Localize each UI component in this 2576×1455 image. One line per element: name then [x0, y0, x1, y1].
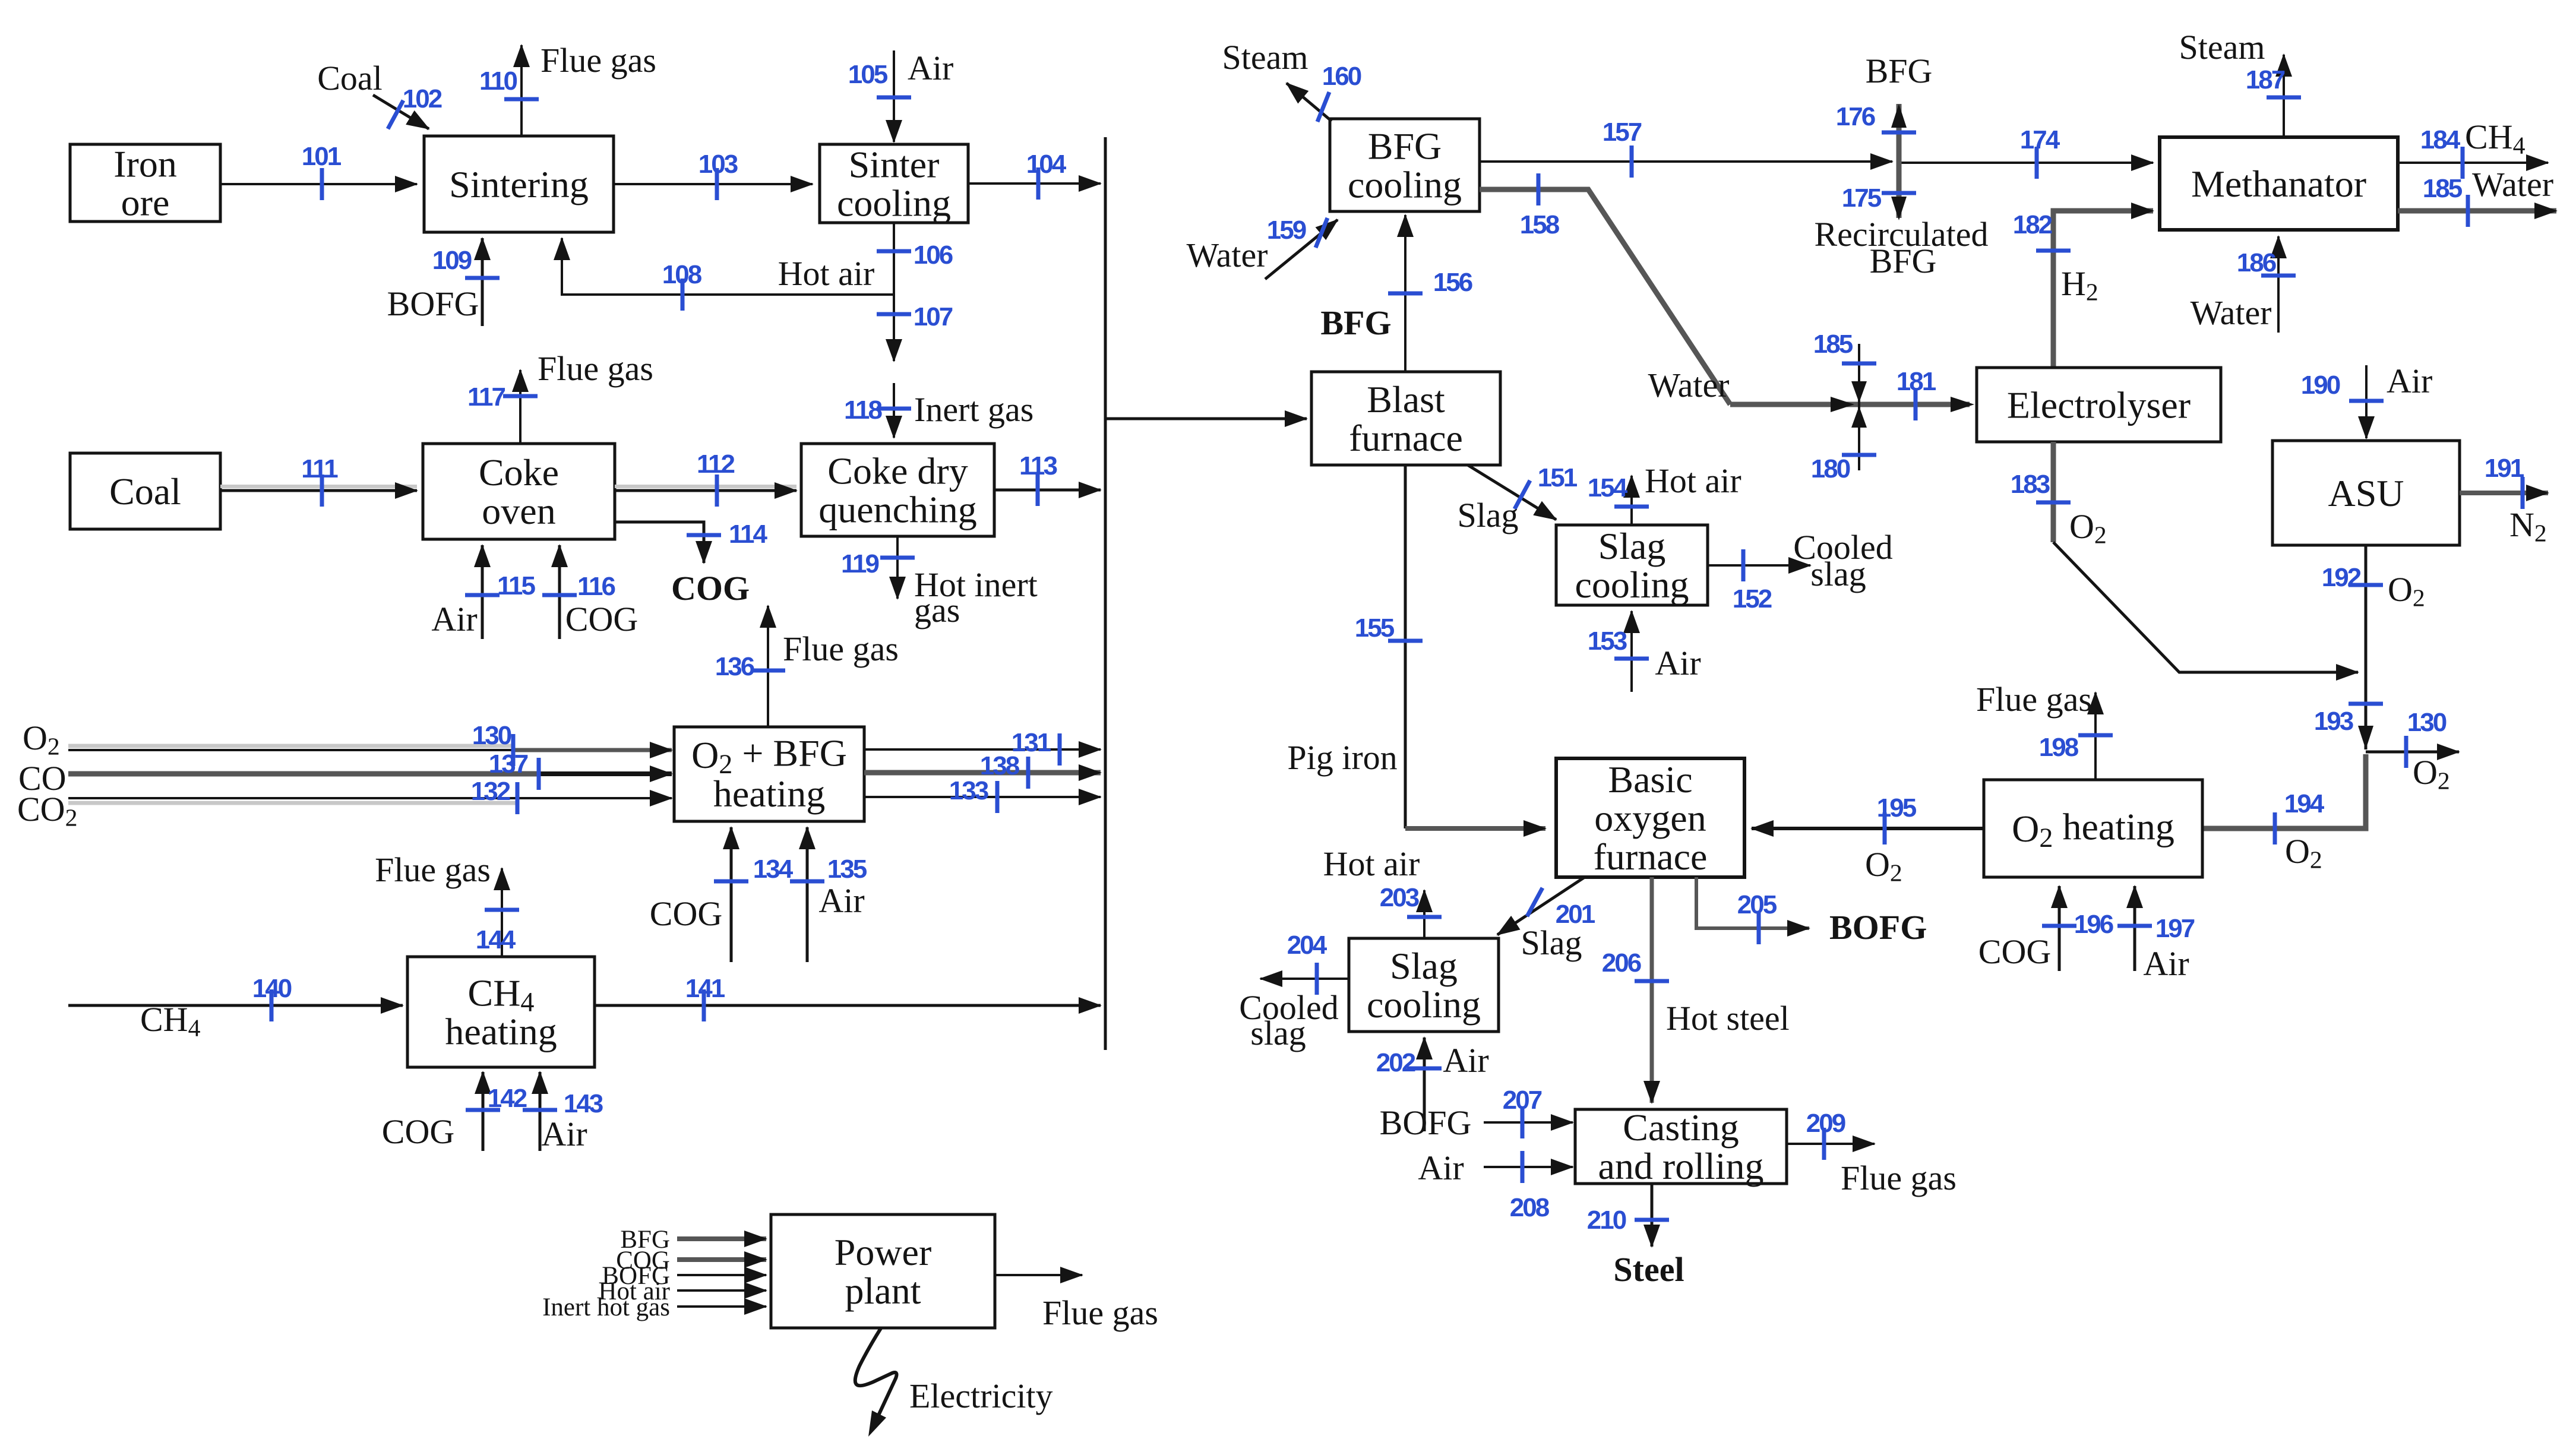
wire/stream 190: air into ASU top [2301, 362, 2433, 438]
wire/stream 130(right): O2 to blast furnace collector [2366, 708, 2459, 795]
wire/stream 185: water out of methanator [2398, 165, 2556, 227]
svg-text:110: 110 [479, 67, 517, 96]
svg-text:Coke dry: Coke dry [827, 450, 968, 492]
unit box: Casting and rolling [1575, 1106, 1787, 1187]
svg-text:209: 209 [1806, 1109, 1845, 1138]
wire/stream 117: coke oven flue gas out top [467, 349, 653, 444]
svg-text:207: 207 [1503, 1086, 1542, 1115]
svg-text:Hot air: Hot air [1645, 461, 1741, 500]
svg-text:Flue gas: Flue gas [783, 630, 899, 668]
label Recirculated BFG [1814, 215, 1988, 280]
svg-text:197: 197 [2155, 914, 2195, 943]
svg-text:210: 210 [1587, 1206, 1626, 1235]
wire/stream 116: COG into coke oven bottom [542, 545, 638, 639]
unit box: Electrolyser [1977, 368, 2221, 442]
wire/stream 157: BFG cooling to recirculation junction [1480, 118, 1892, 178]
wire/stream 142: COG into CH4 heating bottom [382, 1072, 527, 1151]
wire/stream 204: cooled slag out of BOF slag cooling [1239, 931, 1349, 1052]
svg-text:Air: Air [818, 881, 864, 920]
wire/stream 202: air into BOF slag cooling bottom [1376, 1038, 1489, 1131]
svg-text:Air: Air [541, 1115, 587, 1153]
svg-text:Water: Water [1186, 236, 1268, 274]
svg-text:Steam: Steam [2179, 28, 2265, 67]
feed box: Coal [70, 453, 220, 529]
svg-text:Slag: Slag [1390, 945, 1458, 987]
wire/stream 119: hot inert gas out of coke dry quenching [841, 536, 1038, 630]
unit box: O2 heating [1984, 780, 2202, 877]
svg-text:BFG: BFG [1320, 303, 1391, 342]
svg-text:Hot air: Hot air [778, 254, 875, 293]
wire/stream 115: air into coke oven bottom [431, 545, 535, 639]
wire: inert hot gas into power plant [542, 1293, 766, 1321]
wire/stream 101: iron ore to sintering [220, 142, 417, 200]
wire/stream 174: recirculated BFG to methanator [1899, 125, 2153, 179]
svg-text:Steam: Steam [1222, 38, 1308, 77]
wire/stream 114: COG out of coke oven [615, 520, 768, 608]
svg-text:206: 206 [1602, 948, 1641, 978]
unit box: Slag cooling (BOF) [1349, 938, 1499, 1032]
svg-text:133: 133 [949, 776, 988, 805]
wire/stream 205: BOFG out of BOF [1696, 877, 1927, 947]
svg-text:cooling: cooling [1367, 983, 1481, 1026]
svg-text:159: 159 [1267, 216, 1306, 245]
svg-text:cooling: cooling [1575, 564, 1689, 606]
wire/stream 195: O2 heating to basic oxygen furnace [1752, 793, 1984, 887]
svg-text:Steel: Steel [1613, 1250, 1684, 1289]
svg-text:Hot air: Hot air [1323, 844, 1420, 883]
wire/stream 159: water into BFG cooling (diagonal) [1186, 216, 1338, 279]
svg-text:COG: COG [671, 569, 750, 608]
wire/stream 144: flue gas out of CH4 heating [375, 850, 519, 957]
wire/stream 103: sintering to sinter cooling [614, 150, 813, 200]
svg-text:130: 130 [472, 721, 511, 750]
svg-text:ASU: ASU [2328, 472, 2404, 514]
wire/stream 113: coke dry quenching to collector line [994, 451, 1101, 506]
svg-text:Sinter: Sinter [849, 144, 940, 186]
unit box: Sintering [424, 136, 614, 232]
junction: BFG recirculation split 175/176 [1836, 102, 1916, 220]
svg-text:ore: ore [121, 182, 170, 224]
svg-text:185: 185 [1813, 330, 1853, 359]
svg-text:143: 143 [564, 1089, 603, 1118]
svg-text:112: 112 [697, 450, 735, 479]
svg-text:119: 119 [841, 549, 879, 578]
svg-text:furnace: furnace [1594, 836, 1708, 878]
svg-text:Sintering: Sintering [449, 163, 589, 205]
svg-text:202: 202 [1376, 1048, 1415, 1077]
svg-text:heating: heating [445, 1011, 557, 1053]
label O2 (gas feed line) [23, 719, 60, 760]
svg-text:COG: COG [650, 894, 722, 933]
svg-text:160: 160 [1322, 62, 1361, 91]
svg-text:Coal: Coal [109, 470, 181, 513]
svg-text:Inert gas: Inert gas [914, 390, 1033, 429]
label BFG (recirculation top) [1866, 52, 1933, 90]
unit box: Coke oven [423, 444, 615, 539]
wire/stream 198: flue gas out of O2 heating [1976, 680, 2113, 780]
svg-text:Flue gas: Flue gas [375, 850, 491, 889]
wire/stream 201: slag from BOF (diagonal) [1497, 877, 1595, 962]
svg-text:114: 114 [729, 520, 768, 549]
svg-text:108: 108 [662, 260, 702, 289]
wire/stream 208: air into casting [1418, 1149, 1573, 1222]
wire/stream 137: CO feed into O2+BFG heating [68, 749, 672, 790]
svg-text:Flue gas: Flue gas [538, 349, 653, 388]
unit box: Blast furnace [1311, 372, 1500, 465]
svg-text:208: 208 [1510, 1193, 1550, 1222]
unit box: ASU [2272, 441, 2460, 545]
wire/stream 132: CO2 feed into O2+BFG heating [68, 777, 672, 814]
svg-text:141: 141 [685, 974, 725, 1003]
svg-text:Water: Water [1648, 366, 1729, 404]
wire/stream 207: BOFG into casting [1380, 1086, 1573, 1142]
svg-text:Flue gas: Flue gas [541, 41, 656, 80]
svg-text:104: 104 [1026, 150, 1067, 179]
wire/stream 112: coke oven to coke dry quenching [615, 450, 796, 507]
svg-text:155: 155 [1355, 613, 1395, 643]
wire/stream 192-193: O2 from ASU down to junction [2314, 545, 2425, 749]
svg-text:137: 137 [489, 749, 528, 779]
feed box: Iron ore [70, 143, 220, 224]
wire: COG into power plant [616, 1247, 766, 1274]
svg-text:BOFG: BOFG [387, 284, 479, 323]
unit box: CH4 heating [407, 957, 595, 1067]
wire/stream 110: sintering flue gas out top [479, 41, 656, 136]
svg-text:196: 196 [2074, 910, 2113, 939]
wire/stream 156: BFG from blast furnace to BFG cooling [1320, 215, 1472, 372]
svg-text:Air: Air [908, 49, 953, 87]
svg-text:Slag: Slag [1457, 496, 1518, 534]
svg-text:Air: Air [1418, 1149, 1464, 1187]
wire/stream 181: water line into electrolyser [1648, 366, 1974, 420]
unit box: Coke dry quenching [801, 444, 994, 536]
svg-text:Inert hot gas: Inert hot gas [542, 1293, 670, 1321]
svg-text:195: 195 [1877, 793, 1917, 823]
svg-text:203: 203 [1380, 883, 1419, 912]
svg-text:COG: COG [565, 600, 638, 638]
wire: collector to blast furnace feed [1105, 417, 1307, 420]
svg-text:cooling: cooling [1348, 164, 1462, 206]
wire: hot air into power plant [598, 1277, 766, 1305]
svg-text:113: 113 [1019, 451, 1057, 480]
svg-text:oven: oven [482, 490, 555, 532]
wire/stream 131: heated O2 to collector line [864, 728, 1101, 766]
svg-text:Basic: Basic [1608, 758, 1692, 801]
svg-text:132: 132 [471, 777, 510, 806]
svg-text:Air: Air [2387, 362, 2432, 400]
svg-text:Slag: Slag [1521, 923, 1582, 962]
wire/stream 102: coal into sintering (diagonal) [373, 84, 442, 129]
svg-text:107: 107 [914, 302, 953, 331]
junction: water make-up 185/180 [1811, 330, 1876, 483]
svg-text:134: 134 [753, 855, 794, 884]
wire/stream 141: heated CH4 to collector line [595, 974, 1101, 1021]
svg-text:157: 157 [1603, 118, 1642, 147]
wire/stream 158: BFG cooling to water line (diagonal) [1480, 173, 1730, 404]
wire/stream 182: H2 from electrolyser to methanator [2013, 210, 2153, 368]
svg-text:quenching: quenching [818, 489, 977, 531]
wire/stream 138: heated CO to collector line [864, 751, 1101, 789]
wire/stream 209: flue gas out of casting [1787, 1109, 1957, 1197]
wire: electricity squiggle out of power plant [855, 1327, 1053, 1437]
wire: vertical collector line (hot streams to blast furnace) [1104, 137, 1107, 1050]
unit box: Slag cooling (blast furnace) [1556, 525, 1708, 606]
unit box: Basic oxygen furnace [1556, 758, 1744, 878]
svg-text:186: 186 [2237, 248, 2276, 277]
svg-text:Power: Power [835, 1231, 932, 1273]
svg-text:192: 192 [2322, 563, 2361, 592]
svg-text:187: 187 [2246, 65, 2285, 94]
svg-text:heating: heating [713, 773, 825, 815]
wire/stream 160: steam out of BFG cooling (diagonal) [1222, 38, 1361, 122]
label CH4 (methane feed) [140, 1000, 201, 1042]
wire/stream 140: CH4 feed into CH4 heating [68, 974, 403, 1021]
svg-text:191: 191 [2485, 454, 2524, 483]
svg-text:116: 116 [577, 572, 615, 601]
svg-text:Coke: Coke [479, 451, 559, 494]
unit box: Methanator [2160, 137, 2398, 230]
wire/stream 191: N2 out of ASU [2460, 454, 2548, 547]
svg-text:198: 198 [2039, 733, 2079, 762]
svg-text:105: 105 [848, 60, 888, 89]
wire/stream 130(left): O2 feed into O2+BFG heating [68, 721, 672, 766]
wire/stream 210: steel product out of casting [1587, 1184, 1684, 1289]
svg-text:Hot steel: Hot steel [1666, 999, 1790, 1038]
svg-text:cooling: cooling [837, 182, 951, 224]
label Coal (sintering feed) [317, 59, 383, 97]
svg-text:BOFG: BOFG [1829, 908, 1927, 947]
wire/stream 186: water into methanator bottom [2190, 236, 2296, 333]
svg-text:190: 190 [2301, 371, 2340, 400]
wire/stream 106-107: sinter cooling bottom outlet [877, 223, 953, 361]
svg-text:oxygen: oxygen [1594, 797, 1706, 839]
svg-text:Flue gas: Flue gas [1976, 680, 2092, 719]
svg-text:106: 106 [914, 241, 953, 270]
svg-text:Air: Air [1655, 644, 1701, 682]
svg-text:111: 111 [301, 454, 338, 483]
wire: power plant flue gas out [995, 1275, 1158, 1332]
wire/stream 108: hot air into sintering bottom [562, 238, 894, 311]
svg-text:152: 152 [1733, 584, 1772, 613]
wire/stream 153: air into slag cooling bottom [1588, 611, 1701, 692]
wire/stream 194: heated O2 from O2 heating to junction [2202, 754, 2366, 874]
wire/stream 111: coal to coke oven [220, 454, 417, 507]
svg-text:Casting: Casting [1623, 1106, 1739, 1149]
wire/stream 136: flue gas out of O2+BFG heating [715, 606, 899, 727]
svg-text:O2​ heating: O2​ heating [2012, 805, 2174, 853]
svg-text:117: 117 [467, 382, 505, 412]
svg-text:Air: Air [431, 600, 477, 638]
wire/stream 104: sinter cooling to collector line [968, 150, 1101, 200]
wire/stream 152: cooled slag out [1708, 528, 1893, 613]
wire/stream 197: air into O2 heating bottom [2117, 886, 2195, 983]
svg-text:153: 153 [1588, 627, 1627, 656]
svg-text:175: 175 [1842, 184, 1882, 213]
svg-text:Coal: Coal [317, 59, 383, 97]
svg-text:130: 130 [2407, 708, 2447, 737]
unit box: Power plant [771, 1214, 995, 1328]
wire/stream 183: O2 from electrolyser to ASU O2 line [2011, 442, 2358, 672]
svg-text:142: 142 [488, 1084, 527, 1113]
unit box: O2 + BFG heating [674, 727, 864, 821]
svg-text:BOFG: BOFG [1380, 1103, 1472, 1142]
svg-text:COG: COG [1978, 932, 2051, 971]
wire/stream 203: hot air out of BOF slag cooling [1323, 844, 1442, 938]
svg-text:102: 102 [403, 84, 442, 113]
svg-text:slag: slag [1250, 1014, 1306, 1052]
svg-text:103: 103 [698, 150, 738, 179]
wire/stream 133: heated CO2 to collector line [864, 776, 1101, 813]
wire/stream 206: hot steel from BOF to casting [1602, 877, 1790, 1103]
wire/stream 196: COG into O2 heating bottom [1978, 886, 2113, 971]
wire/stream 143: air into CH4 heating bottom [523, 1072, 603, 1153]
svg-text:184: 184 [2420, 125, 2461, 154]
svg-text:Electricity: Electricity [909, 1377, 1053, 1415]
wire: BFG into power plant [620, 1226, 766, 1254]
svg-text:118: 118 [844, 396, 883, 425]
svg-text:180: 180 [1811, 454, 1850, 483]
wire/stream 109: BOFG into sintering bottom [387, 238, 500, 326]
wire: BOFG into power plant [602, 1262, 766, 1290]
wire/stream 155: pig iron from blast furnace to BOF [1287, 465, 1545, 828]
label CO2 (gas feed line) [17, 790, 77, 831]
svg-text:181: 181 [1897, 367, 1936, 396]
svg-text:Blast: Blast [1367, 378, 1445, 420]
svg-text:gas: gas [914, 591, 960, 630]
svg-text:Slag: Slag [1598, 525, 1666, 567]
svg-text:193: 193 [2314, 707, 2353, 736]
svg-text:BFG: BFG [1870, 242, 1937, 280]
svg-text:144: 144 [476, 925, 516, 954]
svg-text:BFG: BFG [1866, 52, 1933, 90]
svg-text:Water: Water [2190, 293, 2271, 332]
wire/stream 135: air into O2+BFG heating bottom [790, 827, 867, 962]
svg-text:158: 158 [1520, 210, 1560, 239]
svg-text:Water: Water [2472, 165, 2553, 204]
svg-text:101: 101 [302, 142, 342, 171]
svg-text:115: 115 [497, 571, 536, 600]
svg-text:204: 204 [1287, 931, 1327, 960]
svg-text:BFG: BFG [1368, 125, 1442, 167]
wire/stream 151: slag from blast furnace (diagonal) [1457, 463, 1577, 534]
svg-text:174: 174 [2020, 125, 2060, 154]
wire/stream 187: steam out of methanator top [2179, 28, 2301, 137]
svg-text:140: 140 [252, 974, 292, 1003]
svg-text:Flue gas: Flue gas [1841, 1159, 1957, 1197]
svg-text:194: 194 [2284, 789, 2325, 818]
svg-text:151: 151 [1538, 463, 1578, 492]
svg-text:156: 156 [1433, 268, 1472, 297]
svg-text:Iron: Iron [113, 143, 177, 185]
wire/stream 118: inert gas into coke dry quenching top [844, 383, 1033, 438]
svg-text:Pig iron: Pig iron [1287, 738, 1397, 777]
svg-text:109: 109 [432, 246, 472, 275]
svg-text:Air: Air [1443, 1041, 1488, 1080]
svg-text:Flue gas: Flue gas [1042, 1293, 1158, 1332]
svg-text:Methanator: Methanator [2191, 163, 2366, 205]
svg-text:furnace: furnace [1349, 417, 1463, 459]
svg-text:185: 185 [2423, 174, 2463, 203]
wire/stream 154: hot air out of slag cooling top [1588, 461, 1741, 525]
svg-text:Electrolyser: Electrolyser [2007, 384, 2191, 426]
svg-text:136: 136 [715, 652, 754, 681]
svg-text:slag: slag [1810, 555, 1866, 593]
unit box: Sinter cooling [820, 144, 968, 224]
svg-text:154: 154 [1588, 473, 1628, 502]
wire/stream 184: CH4 product out of methanator [2398, 118, 2548, 179]
svg-text:plant: plant [845, 1270, 921, 1312]
svg-text:205: 205 [1737, 890, 1777, 919]
svg-text:183: 183 [2011, 470, 2050, 499]
svg-text:Air: Air [2143, 944, 2189, 983]
wire/stream 105: air into sinter cooling top [848, 49, 954, 142]
wire/stream 134: COG into O2+BFG heating bottom [650, 827, 794, 962]
svg-text:COG: COG [382, 1112, 454, 1151]
unit box: BFG cooling [1330, 119, 1480, 211]
svg-text:182: 182 [2013, 210, 2052, 239]
label CO (gas feed line) [18, 759, 67, 798]
svg-text:176: 176 [1836, 102, 1875, 131]
svg-text:and rolling: and rolling [1598, 1145, 1763, 1187]
svg-text:135: 135 [827, 855, 867, 884]
